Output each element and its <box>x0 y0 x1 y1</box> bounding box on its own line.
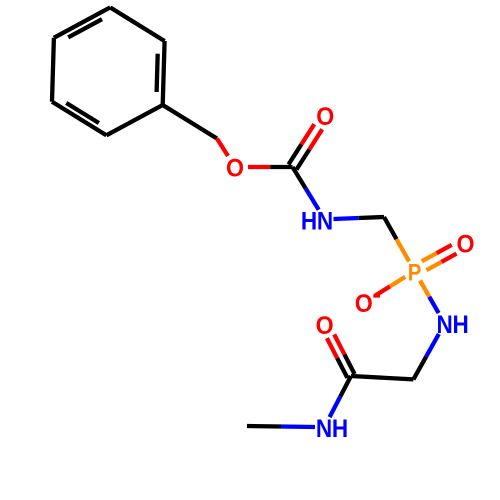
bond Cam-N3 <box>340 376 351 397</box>
svg-text:H: H <box>332 415 348 443</box>
svg-text:O: O <box>355 290 373 318</box>
svg-text:H: H <box>301 207 317 235</box>
bond N3-CH3 <box>281 424 315 429</box>
bond N1-CH2b <box>334 218 359 219</box>
bond N2-CH2c <box>426 334 439 357</box>
amide C=O double <box>344 354 354 374</box>
bond CH2b-P <box>384 217 397 239</box>
bond ring-CH2 <box>163 105 217 139</box>
svg-text:H: H <box>452 311 468 339</box>
benzene inner double bonds <box>157 54 158 92</box>
bond CH2-O ester <box>217 139 228 157</box>
bond P-O3 <box>390 277 405 287</box>
bond CH2c-Cam <box>351 376 413 379</box>
svg-text:O: O <box>316 103 334 131</box>
svg-text:N: N <box>316 415 332 443</box>
benzene ring <box>163 41 165 105</box>
bond C-N1 <box>293 167 306 188</box>
svg-text:N: N <box>436 311 452 339</box>
svg-text:O: O <box>316 312 334 340</box>
svg-text:N: N <box>317 207 333 235</box>
svg-text:O: O <box>226 154 244 182</box>
bond O-C carbamate <box>248 165 270 169</box>
carbamate C=O double <box>297 149 310 169</box>
svg-text:P: P <box>408 259 422 286</box>
svg-text:O: O <box>457 230 475 258</box>
bond P-N2 <box>420 281 429 297</box>
P=O double <box>427 262 442 270</box>
